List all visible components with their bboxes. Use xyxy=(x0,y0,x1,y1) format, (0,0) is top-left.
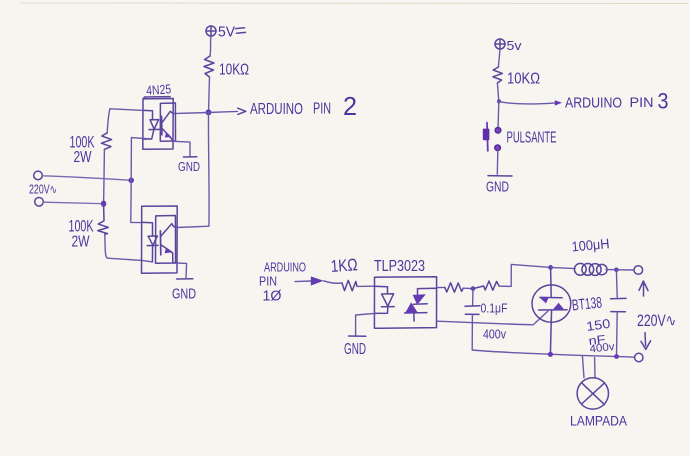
power +5V supply symbol left xyxy=(206,26,246,36)
optocoupler U2 inner box xyxy=(156,216,176,264)
triac Q3 MT1 lead xyxy=(550,310,551,354)
triac Q3 symbol xyxy=(539,297,567,310)
wire R1 to node PIN2 xyxy=(209,77,210,112)
svg-text:10KΩ: 10KΩ xyxy=(219,62,249,79)
terminal OUT+ xyxy=(634,266,643,275)
svg-text:PIN: PIN xyxy=(259,274,277,289)
junction node C1 xyxy=(471,286,476,291)
ground GND S1 xyxy=(488,175,512,177)
resistor R1 10K pullup left xyxy=(204,56,214,77)
wire R4 to node PIN3 xyxy=(497,83,498,101)
svg-text:1KΩ: 1KΩ xyxy=(330,255,358,276)
wire U2 collector to node PIN2 xyxy=(177,113,209,228)
wire node PIN3 to switch xyxy=(497,101,500,127)
ground GND U1 xyxy=(183,156,196,158)
svg-text:2W: 2W xyxy=(72,234,90,251)
wire R5 to U3 xyxy=(357,285,375,287)
power +5V supply symbol right xyxy=(495,39,505,49)
wire U1 emitter to ground xyxy=(173,141,190,156)
resistor R4 10K pullup right xyxy=(493,67,503,83)
svg-text:2W: 2W xyxy=(74,149,92,166)
wire arrowhead to R5 xyxy=(324,281,342,283)
pushbutton S1 actuator xyxy=(486,123,489,151)
svg-text:GND: GND xyxy=(172,286,196,303)
bottom rail wire xyxy=(472,350,634,357)
terminal 220V line A xyxy=(34,171,43,180)
wire terminal B to node Y xyxy=(44,202,101,203)
arrowhead ARDUINO PIN 3 xyxy=(555,100,562,105)
svg-text:400v: 400v xyxy=(483,328,507,342)
terminal OUT- xyxy=(635,353,643,361)
wire node C1 to capacitor C1 xyxy=(472,289,474,306)
junction node X xyxy=(128,178,134,184)
svg-text:220V∿: 220V∿ xyxy=(637,311,676,330)
wire switch to ground xyxy=(496,151,499,174)
arrow down (220V) xyxy=(641,333,651,350)
svg-text:3: 3 xyxy=(658,89,669,114)
junction node MT2 xyxy=(548,265,553,270)
phototransistor Q2 inside U2 xyxy=(160,224,177,263)
capacitor C2 150nF wire top xyxy=(615,270,618,297)
resistor R7 xyxy=(473,281,499,290)
svg-text:TLP3023: TLP3023 xyxy=(374,258,425,275)
wire U3 pin6 to R6 xyxy=(437,286,445,288)
arrowhead PIN 10 xyxy=(311,276,324,285)
lamp LP1 leads xyxy=(582,356,595,378)
svg-text:220V∿: 220V∿ xyxy=(29,183,57,197)
wire R7 up to MT2 rail xyxy=(499,264,550,286)
svg-text:ARDUINO: ARDUINO xyxy=(250,101,303,118)
junction node OUT+ xyxy=(614,268,619,273)
wire U3 pin4 gate line to triac gate xyxy=(437,311,548,325)
ground GND U3 xyxy=(349,335,366,337)
svg-text:PULSANTE: PULSANTE xyxy=(507,130,557,147)
top edge shadow line xyxy=(20,2,688,5)
junction node OUT- xyxy=(614,354,619,359)
junction node Y xyxy=(101,201,106,207)
optocoupler U1 4N25 outer box xyxy=(143,97,173,149)
LED D1 inside U1 xyxy=(143,110,159,139)
optocoupler U1 inner box xyxy=(160,103,175,141)
svg-text:ARDUINO: ARDUINO xyxy=(264,260,306,275)
photo-triac inside U3 xyxy=(405,288,437,321)
wire node X up to U1 cathode xyxy=(131,138,152,181)
arrow up (220V) xyxy=(639,281,648,296)
svg-text:LAMPADA: LAMPADA xyxy=(570,413,628,429)
junction node PIN2 xyxy=(206,109,212,115)
svg-text:2: 2 xyxy=(343,91,357,121)
optocoupler U2 outer box xyxy=(142,206,178,273)
wire L1 to node OUT+ xyxy=(606,269,614,271)
svg-text:PIN: PIN xyxy=(313,101,331,118)
LED D3 inside U3 xyxy=(374,286,394,313)
svg-text:5V: 5V xyxy=(218,24,235,41)
triac Q3 BT138 body xyxy=(532,285,571,322)
lamp LP1 cross xyxy=(582,383,605,404)
svg-text:PIN: PIN xyxy=(630,94,654,110)
phototransistor Q1 inside U1 xyxy=(162,111,174,141)
resistor R2 100K 2W top xyxy=(101,133,111,150)
wire U3 cathode to ground xyxy=(356,313,375,335)
wire R3 to U2 cathode xyxy=(105,234,153,262)
wire node OUT+ to terminal xyxy=(619,269,634,271)
wire 5V to R1 xyxy=(210,36,211,56)
svg-text:1Ø: 1Ø xyxy=(263,288,282,305)
terminal 220V line B xyxy=(35,198,44,207)
svg-text:GND: GND xyxy=(178,159,200,174)
svg-text:4N25: 4N25 xyxy=(146,81,172,98)
LED D2 inside U2 xyxy=(142,222,158,262)
svg-text:GND: GND xyxy=(344,341,366,358)
svg-text:5v: 5v xyxy=(507,38,523,53)
capacitor C1 0.1uF plates xyxy=(465,306,480,315)
resistor R6 xyxy=(445,283,463,292)
arrowhead ARDUINO PIN 2 xyxy=(238,108,246,114)
wire C1 bottom to bottom rail xyxy=(471,315,473,350)
svg-text:ARDUINO: ARDUINO xyxy=(565,96,622,112)
opto-triac U3 TLP3023 box xyxy=(374,277,436,329)
pushbutton S1 top contact xyxy=(495,128,501,134)
svg-text:BT138: BT138 xyxy=(571,294,603,314)
wire R2 to node Y xyxy=(103,149,106,203)
wire node PIN3 to arrow xyxy=(499,101,555,104)
wire U1 collector to node PIN2 and to arrow xyxy=(173,111,238,113)
svg-text:10KΩ: 10KΩ xyxy=(507,71,540,88)
svg-text:100μH: 100μH xyxy=(571,235,610,254)
svg-text:GND: GND xyxy=(486,179,509,196)
inductor L1 100uH xyxy=(574,263,607,275)
junction node PIN3 xyxy=(497,99,501,103)
wire U2 emitter to ground xyxy=(177,263,187,278)
wire 5V to R4 xyxy=(498,49,500,67)
wire U1 anode left to R2 xyxy=(107,109,143,133)
lamp LP1 bulb xyxy=(577,378,608,409)
wire R6 to node C1 xyxy=(463,287,471,289)
junction node MT1 rail xyxy=(548,352,553,357)
wire terminal A to node X xyxy=(43,176,129,180)
triac Q3 MT2 lead xyxy=(550,267,553,297)
capacitor C2 plates xyxy=(611,298,626,311)
svg-text:0.1μF: 0.1μF xyxy=(481,302,508,316)
wire MT2 node to inductor L1 xyxy=(551,267,575,268)
ground GND U2 xyxy=(177,278,193,280)
emitter arrowhead Q2 xyxy=(165,248,172,254)
wire node X down to U2 anode xyxy=(131,180,142,222)
pushbutton S1 bottom contact xyxy=(495,145,501,151)
wire from PIN 10 xyxy=(295,280,311,283)
capacitor C2 wire bottom xyxy=(616,312,619,356)
emitter arrowhead Q1 xyxy=(165,132,172,138)
resistor R3 100K 2W bottom xyxy=(98,204,109,235)
resistor R5 1K xyxy=(342,280,357,290)
